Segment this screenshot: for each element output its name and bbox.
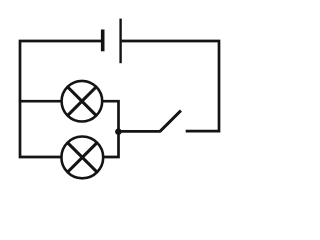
wire: battery negative terminal to top-left corner, left vertical rail, feed to bottom lamp	[20, 41, 101, 157]
switch S1: open blade	[160, 111, 181, 132]
node: junction dot joining lamps and switch branch	[115, 128, 122, 135]
lamp L2 (bottom): cross mark	[68, 143, 98, 173]
battery cell B1: short (negative) plate	[101, 30, 105, 52]
lamp L1 (top): cross mark	[68, 87, 97, 116]
wire: left rail tee to top lamp	[19, 100, 62, 103]
battery cell B1: long (positive) plate	[119, 19, 121, 64]
wire: battery positive terminal to top-right corner, right vertical rail, switch fixed contact	[122, 41, 219, 131]
lamp L1 (top): bulb circle	[62, 81, 103, 122]
wire: junction to switch pivot	[119, 130, 161, 133]
wire: lamp outputs joined by middle vertical bus	[101, 101, 118, 157]
lamp L2 (bottom): bulb circle	[61, 137, 103, 179]
